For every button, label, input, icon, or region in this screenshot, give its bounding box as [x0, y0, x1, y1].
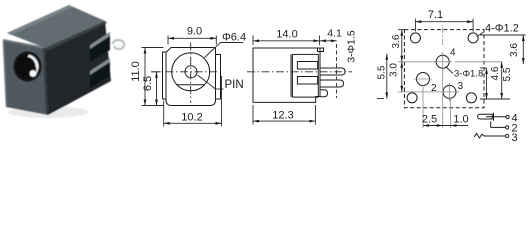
jack photo front face — [3, 40, 48, 115]
dimension 4.1 (pin length) — [320, 40, 337, 42]
side view terminal block with slots — [292, 54, 318, 97]
svg-text:6.5: 6.5 — [142, 76, 154, 91]
footprint dashed body outline — [404, 30, 484, 108]
svg-text:3.6: 3.6 — [509, 43, 520, 57]
svg-text:7.1: 7.1 — [428, 9, 443, 21]
side view pins 4,3,2 (3x dia 1.5) — [320, 68, 345, 75]
front view center PIN circle — [185, 66, 197, 78]
front view barrel circle (dia 6.4) — [172, 53, 210, 91]
side view body outline — [253, 48, 320, 102]
svg-text:3.6: 3.6 — [391, 34, 402, 48]
svg-text:12.3: 12.3 — [272, 110, 293, 122]
svg-text:10.2: 10.2 — [181, 112, 202, 124]
footprint pin holes 4,2,3 (3-dia1.8) — [436, 55, 449, 68]
svg-text:14.0: 14.0 — [276, 29, 297, 41]
schematic wire and terminal pin 2 — [490, 122, 492, 128]
svg-text:9.0: 9.0 — [187, 26, 202, 38]
jack photo bevel edges — [3, 40, 45, 48]
front view barrel flat chord — [177, 84, 206, 86]
svg-text:4.1: 4.1 — [327, 28, 342, 40]
leader line PIN — [198, 75, 224, 89]
svg-text:3-Φ1.5: 3-Φ1.5 — [346, 30, 358, 62]
front view right flange — [216, 55, 221, 100]
svg-text:4: 4 — [450, 48, 456, 59]
svg-text:11.0: 11.0 — [130, 61, 142, 82]
dimension 10.2 (flange width) — [164, 76, 222, 127]
dimension 9.0 (front width) — [168, 36, 216, 45]
label 4-dia1.2 with leader — [477, 32, 485, 37]
jack photo drop shadow — [8, 106, 88, 118]
jack photo right face — [45, 21, 111, 115]
svg-text:5.5: 5.5 — [377, 65, 388, 79]
side view top-right tab — [318, 48, 324, 52]
dimensions 2.5 and 1.0 (bottom) — [423, 125, 468, 127]
footprint mounting holes 4-dia1.2 — [410, 33, 420, 43]
dimension 12.3 (side bottom length) — [253, 105, 315, 125]
jack photo top face — [7, 5, 105, 48]
dimension 5.5 (left) — [377, 54, 387, 99]
footprint hole centerlines and extension lines — [414, 25, 459, 128]
dimensions 3.6 and 3.0 (left) — [398, 30, 443, 92]
svg-text:4-Φ1.2: 4-Φ1.2 — [485, 23, 519, 35]
svg-text:3.0: 3.0 — [389, 63, 400, 77]
label 3-dia1.8 with leader — [446, 67, 454, 74]
svg-text:PIN: PIN — [225, 79, 244, 91]
schematic plug symbol, center pin 4 — [478, 114, 493, 119]
svg-text:5.5: 5.5 — [502, 67, 513, 81]
front view centerlines — [190, 43, 192, 104]
jack photo metal hook pin — [112, 40, 124, 49]
side view inner wall line — [290, 55, 292, 98]
svg-text:4.6: 4.6 — [490, 66, 501, 80]
dimension 14.0 (side length) — [253, 36, 320, 46]
side view PCB plane dashed line — [336, 44, 338, 98]
dimension 6.5 (center height) — [153, 72, 161, 106]
jack photo side solder lugs — [90, 32, 110, 62]
front view body outline — [166, 48, 216, 106]
schematic switch contact wire, pin 3 — [474, 133, 505, 138]
svg-text:3: 3 — [458, 81, 464, 92]
side view centerline — [247, 71, 352, 73]
svg-text:2: 2 — [431, 83, 437, 94]
svg-text:2.5: 2.5 — [422, 114, 437, 126]
front view left flange — [163, 52, 167, 99]
svg-text:3-Φ1.8: 3-Φ1.8 — [454, 69, 483, 80]
svg-text:3: 3 — [512, 132, 518, 144]
svg-text:1.0: 1.0 — [453, 114, 468, 126]
jack photo barrel opening — [13, 51, 41, 81]
dimension 11.0 (front height) — [142, 48, 164, 106]
dimension 7.1 (mount hole spacing) — [415, 19, 473, 32]
3D photo of DC power jack — [3, 5, 124, 118]
leader line dia 6.4 — [205, 43, 244, 58]
dimensions 3.6, 5.5, 4.6 (right) — [455, 35, 526, 99]
svg-text:Φ6.4: Φ6.4 — [222, 32, 246, 44]
